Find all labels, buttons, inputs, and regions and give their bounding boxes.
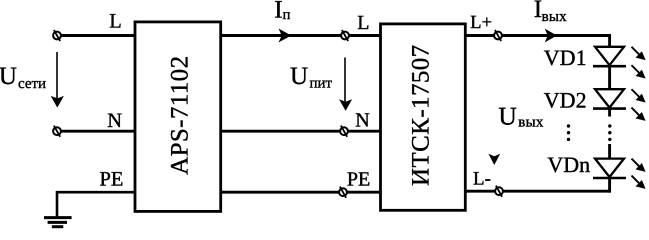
LED VD1: [595, 47, 624, 65]
terminal X3 L+: [494, 32, 502, 40]
svg-text:п: п: [283, 7, 291, 23]
terminal X2 PE: [339, 188, 347, 196]
svg-text:APS-71102: APS-71102: [167, 56, 194, 175]
svg-text:L+: L+: [470, 13, 492, 33]
svg-text:VD1: VD1: [544, 45, 587, 70]
terminal X2 N: [340, 127, 348, 135]
svg-text:L: L: [357, 12, 369, 34]
wire LED chain lower: [608, 144, 611, 193]
emission arrows VDn: [632, 159, 646, 172]
svg-text:U: U: [498, 101, 516, 130]
svg-text:ИТСК-17507: ИТСК-17507: [408, 44, 435, 186]
terminal X1 L: [53, 32, 61, 40]
emission arrows VD1: [632, 47, 646, 60]
svg-text:U: U: [0, 63, 17, 90]
svg-text:пит: пит: [310, 76, 333, 92]
terminal X1 N: [53, 127, 61, 135]
converter box APS-71102: [135, 22, 221, 212]
wire PE middle: [221, 191, 381, 194]
arrow Uпит: [344, 58, 346, 104]
wire L middle: [221, 34, 381, 37]
wire LED chain upper: [608, 34, 611, 116]
arrow Uвых tip: [488, 154, 500, 165]
svg-text:U: U: [290, 63, 308, 90]
terminal X3 L-: [495, 187, 503, 195]
svg-text:вых: вых: [542, 9, 568, 25]
emission arrows VD2: [632, 89, 646, 102]
svg-text:сети: сети: [18, 76, 46, 92]
wire L- output: [465, 190, 611, 193]
svg-text:VDn: VDn: [547, 152, 590, 177]
arrow Iвых current: [545, 29, 557, 43]
terminal X2 L: [341, 32, 349, 40]
svg-text:PE: PE: [100, 168, 124, 190]
arrow Uсети: [56, 52, 58, 100]
wire PE left: [57, 192, 135, 217]
svg-text:N: N: [107, 110, 122, 132]
LED VD2: [595, 89, 624, 107]
svg-text:PE: PE: [347, 168, 370, 190]
dots chain continuation: [608, 124, 611, 127]
svg-text:VD2: VD2: [544, 88, 587, 113]
ground: [44, 216, 72, 219]
svg-text:I: I: [274, 0, 282, 23]
arrow In current: [279, 29, 292, 43]
svg-text:L: L: [109, 11, 122, 33]
svg-text:вых: вых: [518, 115, 544, 131]
LED VDn: [595, 159, 624, 177]
wire N middle: [221, 130, 381, 133]
wire L left: [57, 34, 135, 37]
svg-text:L-: L-: [473, 168, 491, 189]
wire L+ output: [465, 34, 611, 37]
dots label continuation: [567, 124, 570, 127]
driver box ИТСК-17507: [381, 24, 466, 210]
wire N left: [57, 130, 135, 133]
svg-text:N: N: [355, 109, 369, 131]
